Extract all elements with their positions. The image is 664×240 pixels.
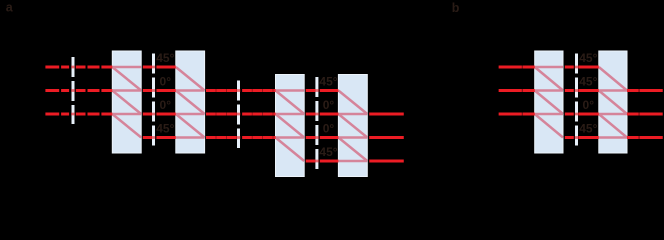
wave plates 45/0/0/45 column WP4 (stage 2, panel a) (315, 77, 318, 169)
svg-text:45°: 45° (319, 74, 337, 88)
svg-text:b: b (452, 1, 460, 15)
wave plates 45/45/0/45 column WP5 (panel b) (575, 54, 578, 148)
beam displacer BD2 (panel a stage 1) (176, 51, 205, 153)
wire: a stage2 input right of HWP (242, 91, 275, 138)
svg-text:45°: 45° (579, 51, 597, 65)
wire: a stage1 BD1-HWP links (143, 67, 152, 138)
svg-text:0°: 0° (323, 121, 335, 135)
beam displacer BD3 (panel a stage 2) (276, 75, 305, 177)
wire: input fibre dashes a (left of HWP) (45, 67, 70, 114)
half-wave plate HWP1 (input, panel a) (72, 57, 75, 124)
wire: a stage1 HWP-BD2 links (156, 67, 175, 138)
wave plate angle labels stage 2 panel a (45/0/0/45) (319, 74, 337, 159)
svg-text:0°: 0° (583, 98, 595, 112)
svg-text:45°: 45° (579, 121, 597, 135)
wire: b HWP-BD6 links (579, 67, 599, 138)
wire: a output dashes (369, 114, 403, 161)
svg-text:45°: 45° (156, 121, 174, 135)
svg-text:45°: 45° (579, 74, 597, 88)
half-wave plate HWP3 (stage 2 input, panel a) (237, 81, 240, 149)
wire: a stage2 BD3-HWP links (306, 91, 316, 162)
wire: a stage2 HWP-BD4 links (320, 91, 339, 162)
svg-text:0°: 0° (160, 98, 172, 112)
wire: input fibre dashes a (right of HWP) (76, 67, 113, 114)
wave plates 45/0/0/45 column WP2 (stage 1, panel a) (152, 54, 155, 148)
svg-text:45°: 45° (319, 145, 337, 159)
wire: b input lines (499, 67, 535, 114)
wave plate angle labels panel b (45/45/0/45) (579, 51, 597, 136)
svg-text:0°: 0° (160, 74, 172, 88)
wire: b BD5-HWP links (565, 67, 574, 138)
beam displacer BD6 (panel b) (599, 51, 627, 153)
svg-text:0°: 0° (323, 98, 335, 112)
wire: a stage2 input left of HWP (206, 91, 237, 138)
svg-text:45°: 45° (156, 51, 174, 65)
wire: b output lines (627, 91, 663, 138)
beam displacer BD5 (panel b) (535, 51, 563, 153)
beam displacer BD1 (panel a stage 1) (112, 51, 141, 153)
svg-text:a: a (6, 1, 14, 15)
beam displacer BD4 (panel a stage 2) (338, 75, 367, 177)
wave plate angle labels stage 1 panel a (45/0/0/45) (156, 51, 174, 136)
faint beam tint across wave plates (71, 66, 578, 163)
